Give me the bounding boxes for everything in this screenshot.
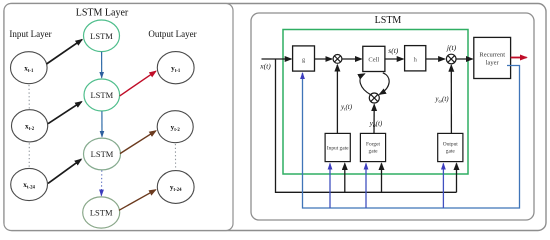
svg-text:yι(t): yι(t) — [340, 103, 353, 112]
wire brown arrow LSTM4 to y_t-24 — [119, 190, 156, 211]
svg-text:gate: gate — [446, 149, 456, 155]
wire mult1 to Cell — [342, 58, 361, 60]
wire blue arrowhead into g — [302, 73, 304, 76]
svg-text:LSTM: LSTM — [91, 149, 114, 159]
wire h to mult2 — [426, 58, 445, 60]
multiplier node 1 — [333, 55, 342, 64]
svg-text:LSTM Layer: LSTM Layer — [76, 8, 129, 19]
wire blue arrow LSTM1 to LSTM2 — [101, 52, 103, 78]
svg-text:Recurrent: Recurrent — [479, 52, 505, 59]
block Input gate — [325, 133, 350, 161]
wire input gate riser to mult1 with label y_i(t) — [336, 65, 338, 133]
multiplier node 3 (cell loop) — [369, 93, 379, 103]
block Output gate — [438, 133, 463, 161]
wire arrow x_t-24 to LSTM3 — [48, 159, 81, 183]
svg-text:yω(t): yω(t) — [434, 95, 449, 104]
block h — [405, 46, 426, 71]
wire g to mult1 — [315, 58, 332, 60]
svg-text:LSTM: LSTM — [90, 31, 113, 41]
wire output gate riser to mult2 with label y_omega(t) — [450, 65, 452, 133]
node y_t-2 — [157, 111, 193, 143]
block Forget gate — [360, 133, 385, 161]
left panel box — [4, 4, 233, 231]
wire dotted arrow LSTM3 to LSTM4 — [101, 171, 103, 191]
wire forget gate riser to mult3 with label y_phi(t) — [373, 105, 375, 134]
wire mult2 to recurrent layer — [456, 58, 472, 60]
node x_t-1 — [11, 52, 48, 84]
node y_t-1 — [157, 52, 194, 84]
svg-text:layer: layer — [486, 60, 500, 67]
wire blue riser to forget gate — [365, 164, 367, 209]
wire brown arrow LSTM3 to y_t-2 — [120, 131, 156, 154]
wire black riser to output gate — [456, 164, 458, 193]
right panel box — [251, 13, 534, 220]
svg-text:gate: gate — [369, 149, 379, 155]
wire loop Cell down into mult3 (right curve) — [380, 73, 390, 95]
wire arrow x_t-2 to LSTM2 — [48, 102, 82, 124]
svg-text:LSTM: LSTM — [375, 15, 402, 26]
svg-text:LSTM: LSTM — [90, 208, 113, 218]
node LSTM 1 — [84, 20, 120, 52]
multiplier node 2 — [446, 54, 456, 64]
node y_t-24 — [157, 171, 194, 204]
svg-text:s(t): s(t) — [388, 46, 399, 55]
wire black riser to input gate — [344, 164, 346, 193]
dotted link x_t-2 to x_t-24 — [28, 143, 30, 167]
svg-text:yφ(t): yφ(t) — [369, 120, 383, 129]
svg-text:LSTM: LSTM — [90, 90, 113, 100]
wire red arrow LSTM2 to y_t-1 — [120, 71, 156, 96]
wire blue arrow LSTM2 to LSTM3 — [101, 111, 103, 137]
svg-text:Cell: Cell — [368, 57, 379, 64]
block Recurrent layer — [474, 37, 511, 78]
dotted link x_t-1 to x_t-2 — [28, 85, 30, 109]
green boundary box — [283, 30, 468, 175]
wire red output arrow — [511, 57, 527, 59]
wire black riser to forget gate — [381, 164, 383, 193]
svg-text:x(t): x(t) — [259, 62, 271, 71]
node LSTM 3 — [84, 138, 121, 170]
wire x(t) input into g — [262, 58, 292, 60]
dotted link y_t-2 to y_t-24 — [174, 144, 176, 169]
wire loop mult3 up into Cell (left curve) — [360, 74, 371, 95]
wire x(t) branch down — [276, 59, 457, 192]
wire blue riser to input gate — [329, 164, 331, 209]
node LSTM 2 — [84, 79, 120, 111]
svg-text:Output: Output — [443, 142, 458, 148]
wire arrow x_t-1 to LSTM1 — [47, 40, 83, 64]
block g — [293, 46, 315, 71]
node LSTM 4 — [83, 197, 120, 228]
node x_t-2 — [12, 110, 48, 142]
svg-text:Input gate: Input gate — [327, 146, 349, 152]
svg-text:j(t): j(t) — [446, 43, 457, 52]
wire blue feedback from recurrent layer — [303, 66, 520, 209]
wire Cell to h — [385, 58, 403, 60]
node x_t-24 — [11, 168, 48, 200]
svg-text:Forget: Forget — [366, 142, 380, 148]
block Cell — [363, 46, 385, 71]
svg-text:Output Layer: Output Layer — [148, 29, 196, 39]
wire blue riser to output gate — [442, 164, 444, 209]
svg-text:Input Layer: Input Layer — [9, 29, 51, 39]
